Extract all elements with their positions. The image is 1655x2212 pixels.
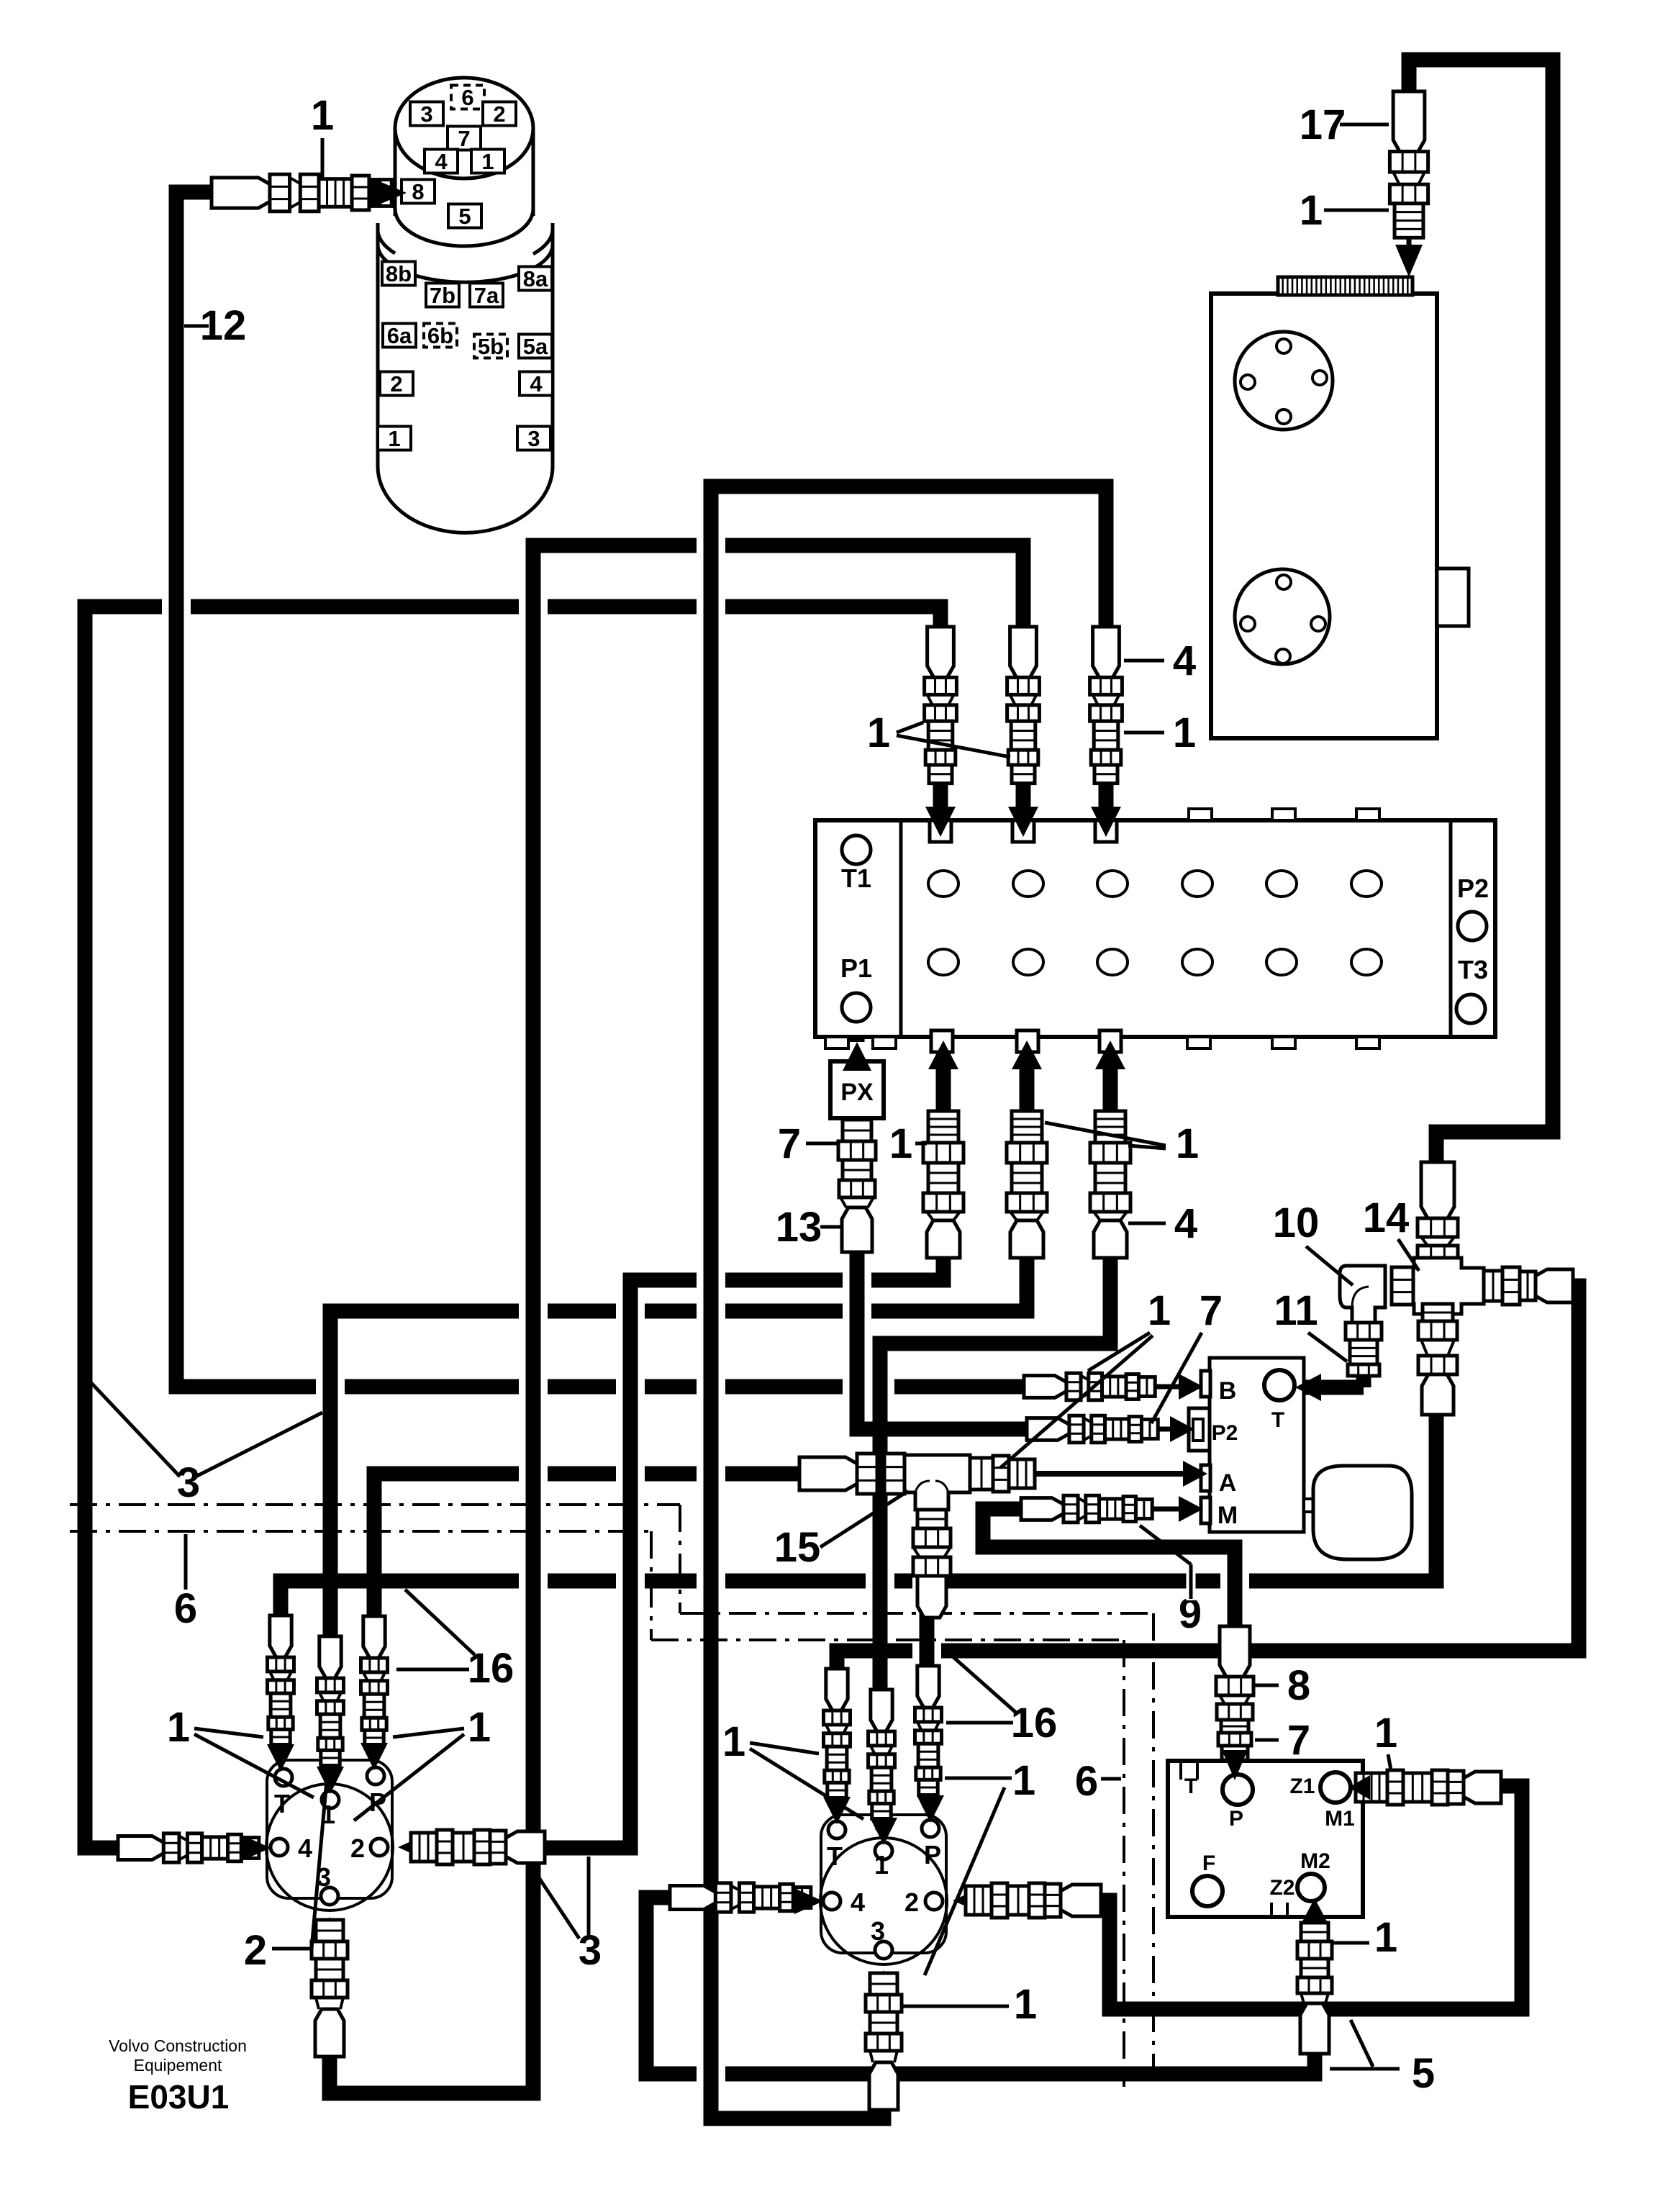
fitting 17/1: tank filler fitting — [1393, 91, 1425, 152]
valve bottom couplings 1 (x1311,x1427,x1543) — [936, 1069, 951, 1111]
PX pressure tap box — [830, 1061, 884, 1118]
svg-text:1: 1 — [167, 1704, 190, 1751]
arrow into valve port — [1091, 807, 1121, 837]
svg-text:1: 1 — [1148, 1287, 1171, 1334]
svg-text:4: 4 — [1173, 638, 1196, 684]
valve port P1 — [842, 993, 871, 1022]
valve port T1 — [842, 835, 871, 864]
dash-dot contour step vertical a — [679, 1505, 681, 1613]
port M2/Z2 circle — [1297, 1874, 1325, 1901]
swivel port box 3 — [410, 102, 443, 126]
svg-text:T: T — [274, 1789, 290, 1818]
arrow into M — [1179, 1496, 1203, 1522]
port tab B — [1201, 1371, 1210, 1397]
svg-text:T1: T1 — [841, 864, 871, 893]
tee branch pieces — [917, 1510, 946, 1528]
tank flange lower — [1235, 569, 1330, 664]
svg-text:7: 7 — [1287, 1717, 1310, 1764]
svg-text:Volvo Construction: Volvo Construction — [109, 2036, 247, 2055]
fitting 14: cross — [1421, 1162, 1454, 1218]
port P circle — [1223, 1774, 1253, 1805]
svg-text:1: 1 — [722, 1718, 745, 1765]
swivel port box 6 — [451, 86, 484, 109]
hose: middle joystick port 2 to M1 — [1101, 1786, 1522, 2009]
middle joystick port 3 fitting 1 — [871, 1970, 897, 1999]
bottom right valve block (dozer/offset) — [1168, 1761, 1363, 1917]
svg-text:1: 1 — [1374, 1710, 1397, 1757]
svg-text:1: 1 — [481, 149, 494, 174]
valve block top ports — [930, 820, 951, 842]
svg-text:P: P — [924, 1840, 941, 1869]
svg-text:1: 1 — [1176, 1120, 1199, 1167]
swivel port box 1 — [471, 150, 504, 173]
arrow into valve port — [1008, 807, 1038, 837]
svg-text:P2: P2 — [1212, 1421, 1238, 1445]
svg-text:4: 4 — [851, 1887, 865, 1917]
arrow into M1 — [1348, 1775, 1370, 1800]
svg-text:6a: 6a — [387, 323, 412, 348]
svg-text:5b: 5b — [478, 334, 504, 359]
hydraulic tank — [1211, 294, 1437, 738]
arrow into compensator T — [1295, 1374, 1321, 1401]
left joystick P fitting coupling 1 — [363, 1616, 385, 1658]
svg-text:1: 1 — [388, 426, 400, 451]
svg-text:7b: 7b — [430, 283, 455, 308]
svg-text:1: 1 — [311, 92, 334, 139]
swivel port box 2 — [483, 102, 516, 126]
svg-text:P2: P2 — [1457, 874, 1489, 903]
dash-dot contour upper-right — [680, 1612, 1153, 1615]
svg-text:4: 4 — [435, 149, 448, 174]
svg-text:M: M — [1218, 1502, 1238, 1529]
hose: tee branch down to middle joystick P — [920, 1603, 935, 1669]
compensator valve block — [1210, 1358, 1304, 1532]
svg-text:16: 16 — [1011, 1700, 1058, 1746]
svg-text:T: T — [1271, 1408, 1284, 1432]
svg-text:6: 6 — [1075, 1758, 1098, 1805]
swivel port box 8 — [402, 180, 435, 204]
svg-text:Z2: Z2 — [1269, 1876, 1294, 1900]
svg-text:F: F — [1202, 1851, 1215, 1875]
port tab P2 — [1189, 1408, 1210, 1451]
arrow into valve port — [925, 807, 956, 837]
cross bottom pieces — [1423, 1304, 1453, 1321]
left joystick T fitting coupling 1 — [270, 1615, 291, 1657]
svg-text:17: 17 — [1300, 101, 1346, 148]
PX arrow into valve P1 — [850, 1058, 865, 1061]
hose: valve top port 3 to middle joystick port 3 — [711, 486, 1106, 2118]
arrow into swivel port 8 — [369, 177, 407, 209]
svg-text:1: 1 — [1012, 1757, 1035, 1804]
arrow into A — [1183, 1461, 1207, 1487]
svg-text:5: 5 — [1412, 2050, 1435, 2097]
valve block spool caps row 1 — [928, 871, 958, 897]
middle joystick P fitting 1 — [917, 1666, 939, 1708]
left joystick port 4 fitting — [118, 1836, 163, 1859]
valve block bottom tabs — [825, 1037, 848, 1048]
hose 5b: middle joystick port 4 to Z2 — [646, 1898, 1315, 2074]
svg-text:2: 2 — [350, 1833, 365, 1863]
hose 17: right riser to tank filler — [1409, 60, 1553, 1162]
left joystick port 3 fitting 2 — [317, 1917, 343, 1946]
svg-text:6: 6 — [461, 85, 473, 110]
svg-text:T3: T3 — [1458, 955, 1488, 984]
swivel port box 6a — [383, 324, 416, 348]
valve port T3 — [1456, 994, 1485, 1023]
dash-dot contour step vertical b — [650, 1531, 653, 1640]
svg-text:1: 1 — [1173, 710, 1196, 756]
dash-dot contour lower-left — [70, 1530, 651, 1533]
arrow into Z2/M2 — [1302, 1898, 1327, 1921]
svg-text:M1: M1 — [1325, 1807, 1355, 1831]
valve block spool caps row 2 — [928, 949, 958, 975]
middle joystick port 1 fitting 1 — [871, 1690, 892, 1731]
swivel port box 3 — [517, 427, 550, 450]
middle joystick pilot valve body — [821, 1815, 946, 1953]
fitting 1: M1 coupling — [1356, 1773, 1387, 1802]
swivel port box 1 — [378, 427, 411, 450]
fitting: M line hose end — [1021, 1498, 1064, 1520]
hose: valve top port 2 to left joystick port 3 — [330, 545, 1023, 2093]
svg-text:8: 8 — [412, 179, 424, 204]
dash-dot contour right vertical b — [1123, 1640, 1125, 2087]
valve top fitting coupling 1 (x1422) — [1010, 627, 1037, 677]
svg-text:4: 4 — [530, 371, 543, 396]
svg-text:11: 11 — [1274, 1287, 1318, 1334]
svg-text:7: 7 — [458, 126, 470, 151]
left joystick pilot valve body — [267, 1760, 392, 1898]
svg-text:E03U1: E03U1 — [128, 2078, 230, 2116]
swivel port box 4 — [425, 150, 458, 173]
svg-text:5: 5 — [458, 204, 471, 229]
port tab A — [1201, 1465, 1210, 1491]
hose: cross bottom to left joystick T — [281, 1413, 1436, 1618]
hose: valve bottom fitting to left joystick port 2 — [545, 1243, 943, 1848]
hose 5a: compensator M to bottom block P — [983, 1509, 1235, 1626]
svg-text:4: 4 — [298, 1833, 312, 1863]
svg-text:16: 16 — [468, 1645, 514, 1692]
dash-dot contour lower-right — [651, 1638, 1124, 1641]
arrow into P2 — [1170, 1416, 1194, 1442]
svg-text:4: 4 — [1174, 1200, 1197, 1247]
swivel port box 7 — [448, 127, 481, 150]
svg-text:3: 3 — [527, 426, 540, 451]
cross right side pieces — [1484, 1271, 1502, 1301]
svg-text:T: T — [1184, 1774, 1197, 1798]
svg-text:1: 1 — [889, 1120, 912, 1167]
svg-text:2: 2 — [244, 1927, 267, 1974]
hose 12: swivel port 8 to compensator B — [176, 192, 1025, 1387]
main control valve block — [815, 820, 1495, 1037]
tank side tab — [1437, 568, 1469, 626]
middle joystick T fitting coupling 1 — [826, 1669, 848, 1710]
svg-text:7a: 7a — [474, 283, 499, 308]
swivel port box 4 — [520, 372, 553, 396]
fitting 7/13 below PX — [843, 1120, 871, 1141]
svg-text:Equipement: Equipement — [134, 2056, 222, 2075]
swivel port box 7a — [470, 284, 503, 307]
svg-text:8a: 8a — [523, 266, 548, 291]
svg-text:6b: 6b — [427, 323, 453, 348]
hose: valve bottom fitting to middle joystick port 1 — [880, 1243, 1110, 1692]
arrow into B — [1179, 1374, 1203, 1400]
tank flange upper — [1235, 332, 1333, 430]
valve block bottom ports — [931, 1030, 953, 1052]
hose: valve bottom fitting to left joystick port 1 — [330, 1243, 1027, 1639]
svg-text:3: 3 — [420, 101, 432, 127]
left joystick port 1 fitting 2 — [319, 1636, 341, 1678]
dash-dot contour upper-left — [70, 1503, 680, 1506]
compensator T gauge circle — [1264, 1370, 1294, 1400]
middle joystick port 2 fitting 1 — [953, 1887, 981, 1913]
fitting 1: swivel inlet hose end — [212, 178, 270, 208]
hose: cross right to middle joystick T — [837, 1286, 1579, 1671]
arrow into tank filler — [1395, 245, 1423, 277]
valve block top tabs — [1189, 809, 1212, 820]
valve port P2 — [1458, 912, 1487, 940]
port F circle — [1192, 1876, 1223, 1906]
svg-text:8: 8 — [1287, 1662, 1310, 1709]
swivel joint assembly — [378, 223, 553, 466]
svg-text:3: 3 — [177, 1459, 200, 1506]
svg-text:2: 2 — [904, 1887, 919, 1917]
hose 13: PX to compensator P2 — [857, 1252, 1028, 1429]
svg-text:Z1: Z1 — [1289, 1774, 1315, 1798]
svg-text:P1: P1 — [840, 953, 872, 983]
svg-text:13: 13 — [776, 1204, 822, 1251]
port tab M — [1201, 1497, 1210, 1523]
svg-text:8b: 8b — [386, 261, 412, 286]
svg-text:B: B — [1219, 1377, 1237, 1405]
svg-text:PX: PX — [840, 1079, 874, 1106]
fitting 15: tee on A line — [799, 1457, 857, 1490]
svg-text:M2: M2 — [1300, 1849, 1330, 1873]
svg-text:1: 1 — [874, 1850, 889, 1880]
svg-text:7: 7 — [1200, 1287, 1223, 1334]
fittings 8 and 7 above bottom block P — [1220, 1626, 1250, 1677]
line crossing gaps — [162, 599, 191, 615]
svg-text:1: 1 — [468, 1704, 491, 1751]
swivel port box 8a — [519, 267, 552, 291]
tank filler cap — [1278, 277, 1413, 295]
hose: valve top port 1 to left joystick port 4 — [85, 607, 940, 1848]
svg-text:3: 3 — [871, 1916, 885, 1946]
svg-text:2: 2 — [390, 371, 402, 396]
swivel port box 6b — [424, 324, 457, 348]
svg-text:1: 1 — [1014, 1981, 1037, 2028]
svg-text:6: 6 — [174, 1585, 197, 1632]
middle joystick port 4 fitting 1 — [670, 1885, 715, 1909]
svg-text:1: 1 — [1374, 1914, 1397, 1961]
svg-text:5a: 5a — [523, 334, 548, 359]
accumulator — [1304, 1499, 1314, 1512]
svg-text:1: 1 — [1300, 187, 1323, 234]
svg-text:1: 1 — [867, 710, 890, 756]
svg-text:2: 2 — [493, 101, 505, 127]
svg-text:P: P — [1229, 1807, 1243, 1831]
svg-text:7: 7 — [778, 1120, 801, 1167]
swivel port box 5b — [474, 335, 507, 358]
male stud 11 — [1346, 1323, 1382, 1340]
left joystick port 2 fitting — [398, 1834, 427, 1860]
swivel port box 5a — [519, 335, 552, 358]
svg-text:14: 14 — [1363, 1195, 1410, 1241]
svg-text:T: T — [827, 1841, 843, 1871]
svg-text:15: 15 — [774, 1524, 821, 1571]
swivel port box 2 — [380, 372, 413, 396]
valve top fitting coupling 1 (x1537) — [1093, 627, 1120, 677]
svg-text:A: A — [1219, 1469, 1237, 1497]
fitting 1: Z2 coupling below bottom block — [1301, 1923, 1328, 1941]
swivel port box 8b — [382, 262, 415, 286]
svg-text:10: 10 — [1273, 1200, 1320, 1246]
swivel port box 7b — [426, 284, 459, 307]
hose: pressure line to A port / left joystick P — [374, 1474, 801, 1619]
fitting 7: P2 line hose end — [1027, 1418, 1069, 1441]
middle joystick ports — [828, 1821, 845, 1839]
elbow 10 — [1392, 1267, 1413, 1305]
fitting: B line hose end coupling 1 — [1024, 1376, 1066, 1398]
dash-dot contour right vertical a — [1152, 1613, 1155, 2087]
swivel port box 5 — [448, 204, 481, 228]
left joystick ports — [275, 1769, 292, 1786]
arrow into bottom block P — [1222, 1750, 1248, 1780]
port M1 circle — [1320, 1772, 1351, 1803]
valve top fitting coupling 1 (x1307) — [928, 627, 954, 677]
